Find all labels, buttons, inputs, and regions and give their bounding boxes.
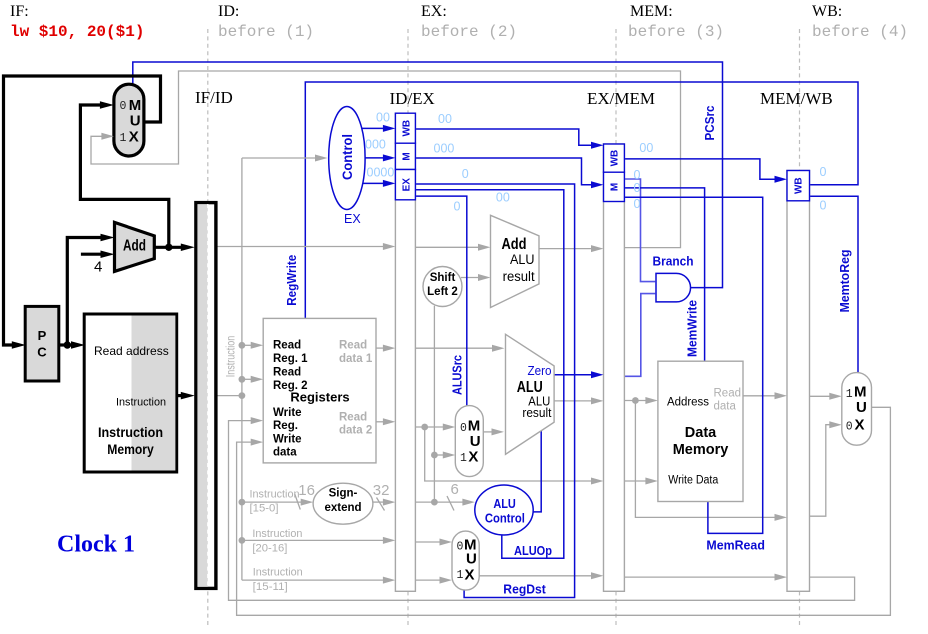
wire Control to ID/EX WB (blue) <box>352 127 386 129</box>
bit-width slash 6 <box>447 496 454 511</box>
svg-text:Instruction: Instruction <box>116 397 166 409</box>
instruction memory <box>84 314 177 472</box>
wire ALUSrc from ID/EX EX to ALUSrc mux select (blue) <box>415 196 466 406</box>
wire read data 1 to ID/EX (gray) <box>376 347 386 349</box>
svg-text:M: M <box>610 183 621 191</box>
svg-text:Add: Add <box>502 236 527 253</box>
wire Branch from EX/MEM M to AND gate (bright blue) <box>624 179 655 282</box>
wire write-back data from mux to Registers write data (gray) <box>237 407 891 615</box>
svg-text:00: 00 <box>438 112 452 126</box>
pipeline register MEM/WB <box>787 171 810 592</box>
svg-text:MEM:: MEM: <box>630 3 673 20</box>
svg-text:result: result <box>522 406 551 420</box>
svg-text:0: 0 <box>846 420 853 433</box>
wire ALU result from EX/MEM to data memory address (gray) <box>624 400 648 402</box>
wire ALUOp from ID/EX EX to ALU control (blue) <box>415 190 563 559</box>
wire Zero flag from ALU to EX/MEM (blue) <box>554 374 594 376</box>
svg-text:0000: 0000 <box>367 166 395 180</box>
Add unit PC+4 <box>115 222 155 271</box>
wire write data through EX/MEM to data memory (gray) <box>624 480 648 482</box>
svg-text:[20-16]: [20-16] <box>252 543 287 555</box>
svg-text:U: U <box>856 399 867 416</box>
svg-text:6: 6 <box>451 481 459 498</box>
wire shift-left-2 output to branch adder (gray) <box>461 277 481 279</box>
svg-text:Shift: Shift <box>430 272 456 284</box>
svg-text:X: X <box>129 128 139 145</box>
wire ID/EX WB to EX/MEM WB (blue) <box>415 129 594 145</box>
wire sign-extend vertical to shift-left-2 (gray) <box>433 306 435 502</box>
svg-text:X: X <box>468 449 478 466</box>
wire instruction distribution vertical (gray) <box>241 158 243 580</box>
svg-text:Clock 1: Clock 1 <box>57 532 135 558</box>
svg-text:000: 000 <box>365 137 386 151</box>
wire RegDst mux output to EX/MEM (gray) <box>479 575 594 577</box>
svg-text:00: 00 <box>639 141 653 155</box>
svg-text:32: 32 <box>373 482 390 499</box>
svg-text:P: P <box>38 328 47 343</box>
wire Control to ID/EX M (blue) <box>358 157 386 159</box>
pipeline register ID/EX <box>395 113 415 591</box>
wire PC to instruction memory read address (black) <box>59 343 72 346</box>
stage separator dashed line EX <box>407 29 409 628</box>
svg-text:[15-11]: [15-11] <box>253 581 288 593</box>
wire Zero from EX/MEM to AND gate (bright blue) <box>624 294 655 377</box>
svg-text:000: 000 <box>434 142 455 156</box>
bit-width slash 32 <box>377 498 385 511</box>
wire PC+4 from IF/ID to ID/EX (gray) <box>218 246 387 248</box>
svg-text:extend: extend <box>324 502 361 514</box>
svg-text:ID:: ID: <box>218 3 239 20</box>
wire ID/EX M to EX/MEM M (blue) <box>415 158 594 185</box>
wire sign-extend tap to ALUSrc mux input 1 (gray) <box>434 454 446 456</box>
shift left 2 oval <box>423 267 462 307</box>
svg-text:RegWrite: RegWrite <box>285 255 299 306</box>
PC register <box>25 306 59 381</box>
wire MemRead from EX/MEM M to data memory (blue) <box>624 197 762 533</box>
svg-text:ALU: ALU <box>510 252 535 267</box>
svg-text:Branch: Branch <box>653 254 694 269</box>
svg-text:0: 0 <box>462 167 469 181</box>
svg-text:0: 0 <box>634 197 641 211</box>
EX/MEM M box <box>604 172 625 201</box>
wire Add output feedback to mux input 0 (black) <box>80 105 168 247</box>
svg-text:ALUSrc: ALUSrc <box>451 355 465 395</box>
branch target adder <box>491 215 540 307</box>
svg-text:Write: Write <box>273 434 302 446</box>
svg-text:ALU: ALU <box>493 497 516 511</box>
write-back mux <box>842 373 872 446</box>
wire instruction [15-0] to sign extend (gray) <box>242 501 304 503</box>
wire instruction from IF/ID (gray) <box>218 395 242 397</box>
wire ALU control to ALU (blue) <box>533 431 541 512</box>
top mux for PC source <box>114 84 144 156</box>
svg-text:1: 1 <box>460 452 467 465</box>
svg-text:data: data <box>273 447 297 459</box>
svg-text:WB:: WB: <box>812 3 842 20</box>
svg-text:1: 1 <box>457 569 464 582</box>
svg-text:Memory: Memory <box>673 442 729 458</box>
wire ALU result bypass to MEM/WB (gray) <box>635 401 777 518</box>
svg-text:Reg.: Reg. <box>273 420 298 432</box>
svg-text:U: U <box>130 113 141 130</box>
RegDst mux <box>452 531 479 590</box>
svg-text:Memory: Memory <box>107 442 154 457</box>
arrowheads gray MEM stage <box>645 397 658 404</box>
svg-text:0: 0 <box>460 422 467 435</box>
svg-text:[15-0]: [15-0] <box>250 503 279 515</box>
wire instruction [20-16] from ID/EX to RegDst mux (gray) <box>415 541 443 543</box>
svg-text:M: M <box>402 152 413 160</box>
wire EX/MEM WB to MEM/WB WB (blue) <box>624 159 777 179</box>
svg-text:EX:: EX: <box>421 3 447 20</box>
svg-text:Data: Data <box>685 425 717 441</box>
wire MemtoReg from MEM/WB.WB to write-back mux select (blue) <box>810 196 859 372</box>
main ALU <box>506 334 555 454</box>
wire MemWrite from EX/MEM M to data memory (blue) <box>624 188 704 361</box>
svg-text:4: 4 <box>94 259 102 276</box>
MEM/WB WB box <box>787 171 810 201</box>
svg-text:16: 16 <box>298 482 315 499</box>
wire instruction to read register 1 (gray) <box>242 344 253 346</box>
arrowheads gray WB stage <box>829 393 842 400</box>
branch AND gate <box>656 273 691 302</box>
svg-text:WB: WB <box>794 177 805 194</box>
wire PC+4 from ID/EX to branch adder (gray) <box>415 246 481 248</box>
svg-text:EX: EX <box>344 212 361 226</box>
svg-text:C: C <box>37 345 47 360</box>
svg-text:U: U <box>466 551 477 568</box>
svg-text:RegDst: RegDst <box>503 582 546 597</box>
svg-text:Address: Address <box>667 397 709 409</box>
wire ALU result to EX/MEM (gray) <box>554 400 594 402</box>
svg-text:0: 0 <box>454 200 461 214</box>
wire sign-extend output to ID/EX (gray) <box>373 501 386 503</box>
svg-text:Left 2: Left 2 <box>427 286 458 298</box>
svg-text:0: 0 <box>820 165 827 179</box>
Control unit oval <box>329 107 365 210</box>
svg-text:before (1): before (1) <box>218 23 314 41</box>
svg-text:Registers: Registers <box>290 390 349 405</box>
svg-text:Read: Read <box>714 388 742 400</box>
svg-text:Instruction: Instruction <box>250 489 300 501</box>
wire ALUSrc mux output to ALU (gray) <box>483 431 495 433</box>
svg-text:U: U <box>470 433 481 450</box>
svg-text:Zero: Zero <box>528 364 552 378</box>
svg-text:Reg. 1: Reg. 1 <box>273 353 308 365</box>
ALUSrc mux <box>455 406 483 477</box>
svg-text:before (3): before (3) <box>628 23 724 41</box>
svg-text:M: M <box>129 97 142 114</box>
wire instruction [20-16] to ID/EX (gray) <box>242 539 386 541</box>
wire write-register-number feedback to Registers (gray) <box>229 421 855 601</box>
svg-text:WB: WB <box>610 150 621 167</box>
wire instruction [15-11] from ID/EX to RegDst mux (gray) <box>415 579 443 581</box>
pipeline register IF/ID <box>196 203 216 589</box>
svg-text:Add: Add <box>123 238 146 255</box>
svg-text:X: X <box>855 416 865 433</box>
svg-text:00: 00 <box>376 111 390 125</box>
arrowheads gray EX stage <box>478 244 491 251</box>
junction dots instruction bus <box>239 342 246 349</box>
wire Add output to IF/ID (black) <box>154 246 184 249</box>
svg-text:0: 0 <box>820 198 827 212</box>
wire read data 1 to ALU (gray) <box>415 347 496 349</box>
svg-text:data 1: data 1 <box>339 353 373 365</box>
svg-text:Read: Read <box>273 340 301 352</box>
svg-text:1: 1 <box>120 132 127 145</box>
wire Control to ID/EX EX (blue) <box>354 182 386 184</box>
stage separator dashed line ID <box>207 29 209 628</box>
svg-text:Read: Read <box>339 412 367 424</box>
arrowheads gray ID stage <box>383 243 396 250</box>
stage separator dashed line WB <box>799 29 801 628</box>
svg-text:Control: Control <box>485 512 525 526</box>
wire instruction [15-11] to ID/EX (gray) <box>242 579 386 581</box>
Registers block <box>263 318 376 463</box>
arrowhead gray into mux1 <box>101 133 114 140</box>
wire write-register-number from EX/MEM to MEM/WB (gray) <box>624 576 777 578</box>
svg-text:lw $10, 20($1): lw $10, 20($1) <box>10 23 144 41</box>
junction dot Add output <box>165 244 172 251</box>
wire branch-target from EX/MEM to top mux (gray) <box>91 71 681 248</box>
svg-text:MemtoReg: MemtoReg <box>838 250 852 313</box>
wire constant 4 into Add (black) <box>81 253 102 256</box>
svg-text:Read: Read <box>339 340 367 352</box>
svg-text:Read: Read <box>273 367 301 379</box>
wire RegDst select from ID/EX EX to RegDst mux (blue) <box>415 184 574 598</box>
svg-text:0: 0 <box>457 541 464 554</box>
ALU control oval <box>475 485 533 535</box>
arrowheads black IF stage <box>12 341 26 349</box>
stage separator dashed line MEM <box>615 29 617 628</box>
bit-width slash 16 <box>295 494 301 510</box>
svg-text:WB: WB <box>402 120 413 137</box>
svg-text:MemWrite: MemWrite <box>686 300 700 357</box>
wire ALU result from MEM/WB to mux input 0 (gray) <box>810 425 833 517</box>
wire instruction to read register 2 (gray) <box>242 378 253 380</box>
EX/MEM WB box <box>604 144 625 172</box>
junction dot read data 2 <box>421 424 428 431</box>
wire PC tap up to Add (black) <box>67 238 102 346</box>
svg-text:data 2: data 2 <box>339 425 372 437</box>
svg-text:1: 1 <box>846 388 853 401</box>
sign extend oval <box>313 483 373 524</box>
svg-text:EX: EX <box>402 178 413 192</box>
wire read data from MEM/WB to mux input 1 (gray) <box>810 395 833 397</box>
wire write data down and to data memory (gray) <box>425 427 594 481</box>
junction dot PC output <box>64 341 71 348</box>
wire RegWrite from MEM/WB.WB to Registers (blue) <box>305 82 858 319</box>
svg-text:Write: Write <box>273 407 302 419</box>
svg-text:Read address: Read address <box>94 344 169 358</box>
svg-text:Instruction: Instruction <box>253 567 303 579</box>
svg-text:0: 0 <box>634 181 641 195</box>
IF/ID internal white dashed separator <box>207 204 209 588</box>
wire branch adder result to EX/MEM (gray) <box>539 248 594 250</box>
svg-text:Instruction: Instruction <box>252 528 302 540</box>
data memory block <box>658 361 743 501</box>
ID/EX M box <box>395 143 415 169</box>
ID/EX WB box <box>395 113 415 143</box>
svg-text:PCSrc: PCSrc <box>703 105 717 140</box>
wire data memory read data to MEM/WB (gray) <box>743 395 777 397</box>
junction dot ALU result <box>632 397 639 404</box>
svg-text:X: X <box>465 567 475 584</box>
svg-text:result: result <box>503 269 535 284</box>
wire mux output to PC (black) <box>4 76 161 345</box>
svg-text:before (2): before (2) <box>421 23 517 41</box>
svg-text:Instruction: Instruction <box>98 425 163 440</box>
svg-text:EX/MEM: EX/MEM <box>587 89 655 108</box>
ID/EX EX box <box>395 170 415 200</box>
svg-text:Control: Control <box>339 134 355 180</box>
svg-text:data: data <box>714 401 737 413</box>
svg-text:before (4): before (4) <box>812 23 908 41</box>
junction dots sign-extend taps <box>431 452 438 459</box>
svg-text:0: 0 <box>634 168 641 182</box>
svg-text:IF/ID: IF/ID <box>195 88 233 107</box>
svg-text:ID/EX: ID/EX <box>390 89 435 108</box>
wire instruction to Control (gray) <box>242 157 318 159</box>
svg-text:00: 00 <box>496 191 510 205</box>
svg-text:M: M <box>854 383 867 400</box>
svg-text:ALUOp: ALUOp <box>514 543 552 558</box>
svg-text:0: 0 <box>120 100 127 113</box>
wire read data 2 to ID/EX (gray) <box>376 421 386 423</box>
wire PCSrc from AND gate to top mux select (blue) <box>133 62 723 288</box>
svg-text:Sign-: Sign- <box>329 488 358 500</box>
wire instruction memory output to IF/ID (black) <box>177 394 184 397</box>
wire read data 2 to ALUSrc mux (gray) <box>415 426 446 428</box>
svg-text:Write Data: Write Data <box>668 475 719 487</box>
svg-text:MEM/WB: MEM/WB <box>760 89 833 108</box>
wire sign-extend value from ID/EX to ALU control (gray) <box>415 501 466 503</box>
svg-text:MemRead: MemRead <box>706 538 765 553</box>
svg-text:IF:: IF: <box>10 3 29 20</box>
svg-text:Instruction: Instruction <box>226 336 238 378</box>
pipeline register EX/MEM <box>604 144 625 591</box>
arrowheads blue control <box>383 125 396 132</box>
